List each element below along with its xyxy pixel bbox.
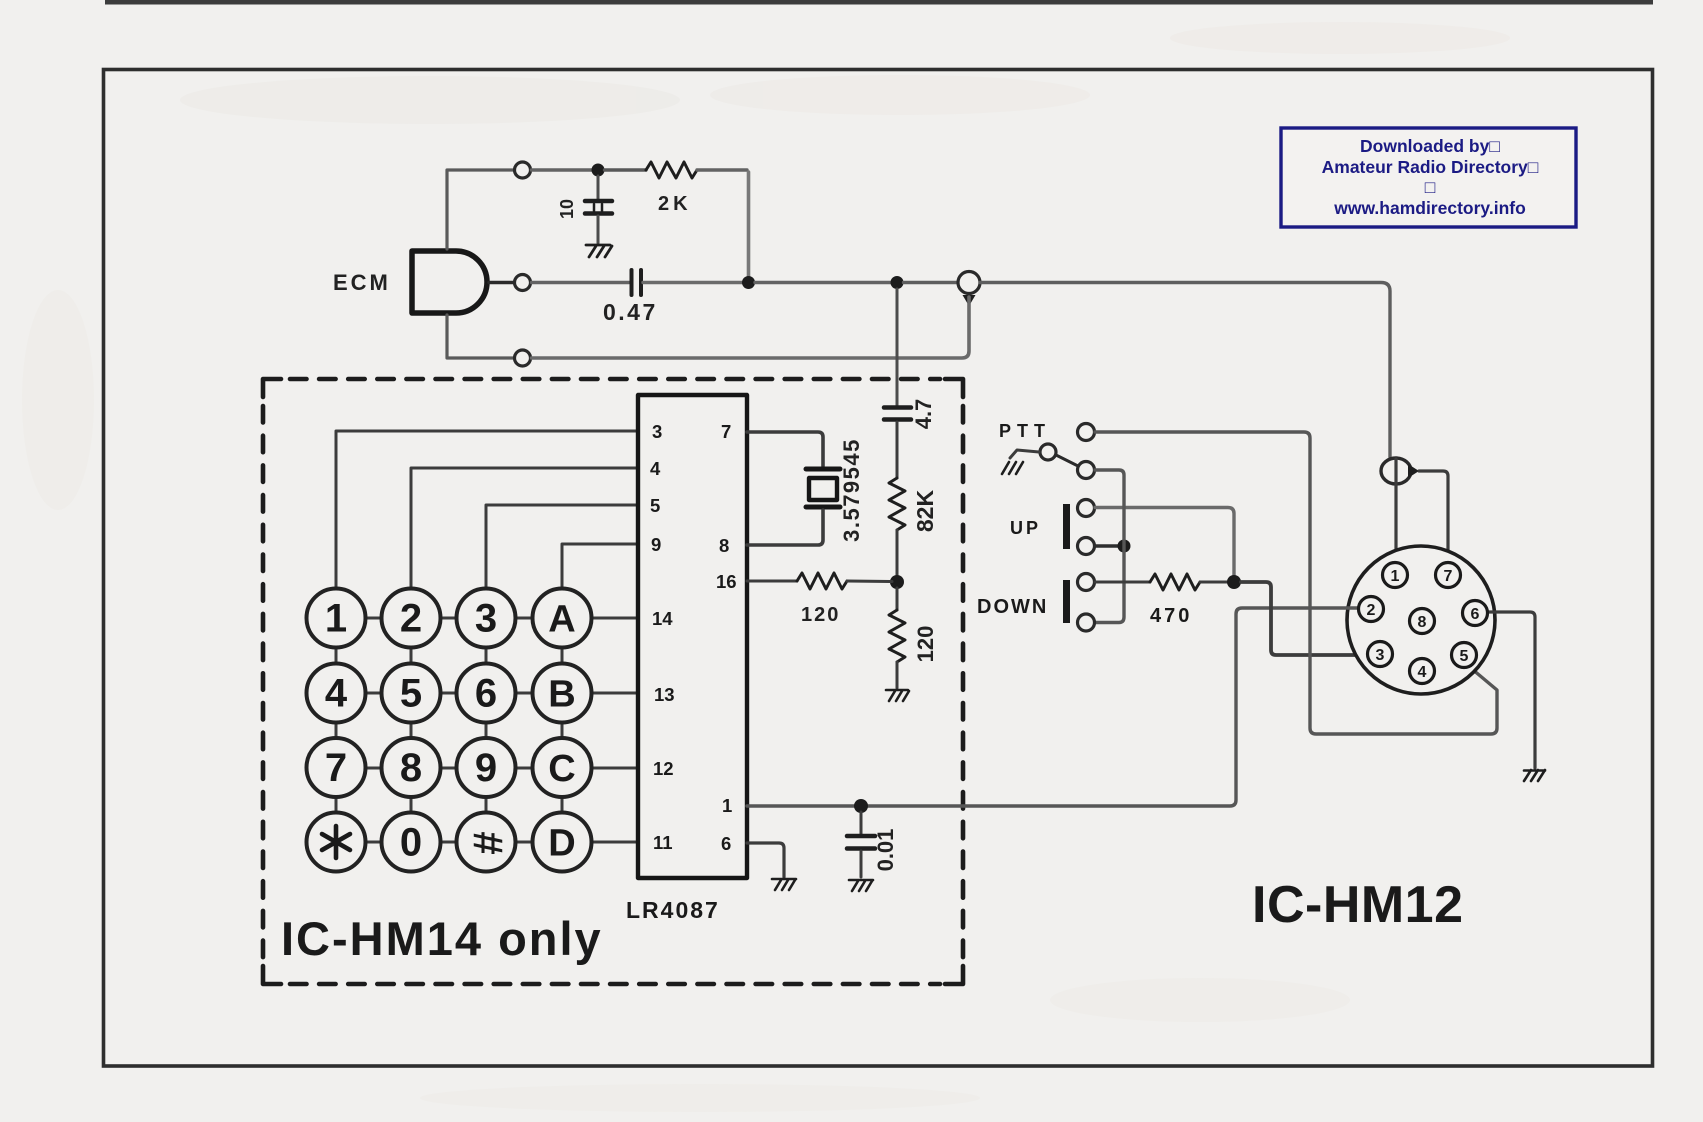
wire DIN pin 6 to ground — [1487, 612, 1535, 768]
ground at PTT — [1002, 462, 1023, 474]
wire node D to resistor 120 — [896, 588, 899, 610]
svg-text:Amateur Radio Directory□: Amateur Radio Directory□ — [1322, 157, 1539, 177]
keypad key B — [533, 664, 592, 723]
wire cable plug to DIN pin 1 — [1394, 459, 1397, 562]
svg-text:www.hamdirectory.info: www.hamdirectory.info — [1333, 198, 1526, 218]
DIN pin 7 — [1436, 563, 1461, 588]
keypad key 5 — [382, 664, 441, 723]
svg-text:6: 6 — [1471, 606, 1480, 623]
DIN pin 5 — [1452, 643, 1477, 668]
wire keypad column 1 to IC pin 3 — [336, 431, 636, 589]
svg-text:10: 10 — [557, 199, 577, 219]
mic line plug — [958, 272, 980, 294]
junction node D — [890, 575, 904, 589]
wire pin 1 net to DIN pin 2 — [747, 608, 1359, 806]
svg-text:6: 6 — [475, 672, 497, 716]
svg-text:□: □ — [1425, 177, 1436, 197]
svg-text:5: 5 — [400, 672, 422, 716]
svg-text:DOWN: DOWN — [977, 596, 1048, 618]
wire UP upper terminal to node F — [1095, 508, 1234, 576]
svg-text:9: 9 — [475, 746, 497, 790]
wire keypad row 2 to IC pin 13 — [336, 692, 636, 695]
wire mic plug to DIN pin 1 — [980, 283, 1390, 458]
wire keypad column 3 verticals — [485, 618, 488, 842]
connector terminal middle — [515, 275, 531, 291]
ground below capacitor 10 — [586, 245, 612, 257]
wire PTT to DIN shell — [1095, 432, 1497, 734]
wire resistor 470 to node F — [1200, 581, 1228, 584]
wire 120 to ground — [896, 662, 899, 688]
watermark box Amateur Radio Directory — [1281, 128, 1576, 227]
IC LR4087 body — [638, 395, 747, 878]
wire PTT lower to DOWN lower bus — [1095, 470, 1124, 623]
svg-text:2: 2 — [400, 597, 422, 641]
svg-text:120: 120 — [913, 626, 938, 663]
svg-text:A: A — [548, 599, 575, 641]
capacitor 0.01 — [847, 812, 875, 877]
svg-text:8: 8 — [400, 746, 422, 790]
dashed enclosure IC-HM14 — [263, 379, 963, 984]
wire node C down to capacitor 4.7 — [896, 289, 899, 405]
svg-text:120: 120 — [801, 604, 840, 626]
DIN pin 3 — [1368, 642, 1393, 667]
svg-text:2: 2 — [1367, 602, 1376, 619]
svg-text:3: 3 — [475, 597, 497, 641]
keypad key 9 — [457, 738, 516, 797]
svg-text:4: 4 — [1418, 664, 1427, 681]
wire DOWN upper terminal to resistor 470 — [1095, 581, 1150, 584]
svg-text:#: # — [465, 831, 512, 854]
resistor 120 vertical — [889, 610, 905, 662]
svg-text:470: 470 — [1150, 605, 1192, 627]
wire resistor 120 to node D — [847, 580, 892, 584]
cable plug arrow — [1408, 464, 1419, 478]
switch PTT lower terminal — [1078, 462, 1095, 479]
svg-text:7: 7 — [325, 746, 347, 790]
DIN pin 8 — [1410, 609, 1435, 634]
wire keypad column 4 verticals — [561, 618, 564, 842]
keypad key 7 — [307, 738, 366, 797]
svg-text:4: 4 — [325, 672, 348, 716]
wire 82K to node D — [896, 530, 899, 577]
svg-text:0.01: 0.01 — [873, 829, 898, 872]
svg-text:16: 16 — [716, 571, 737, 592]
wire keypad column 1 verticals — [335, 618, 338, 842]
svg-text:1: 1 — [325, 597, 347, 641]
svg-text:IC-HM12: IC-HM12 — [1252, 876, 1464, 934]
keypad key 4 — [307, 664, 366, 723]
DIN pin 4 — [1410, 659, 1435, 684]
junction node B — [742, 276, 755, 289]
svg-text:1: 1 — [722, 795, 732, 816]
wire ECM bottom terminal — [447, 315, 513, 358]
svg-text:3: 3 — [1376, 647, 1385, 664]
wire resistor 2K to corner — [697, 168, 747, 171]
keypad key star — [307, 813, 366, 872]
svg-text:Downloaded by□: Downloaded by□ — [1360, 136, 1500, 156]
resistor 2K — [646, 162, 697, 178]
svg-text:5: 5 — [650, 495, 660, 516]
switch UP lower terminal — [1078, 538, 1095, 555]
junction node C — [891, 276, 904, 289]
svg-text:14: 14 — [652, 608, 673, 629]
crystal 3.579545 — [806, 469, 840, 507]
wire node A to resistor 2K — [605, 168, 647, 171]
wire capacitor 10 to ground — [597, 216, 600, 243]
svg-text:11: 11 — [653, 832, 673, 853]
wire keypad column 3 to IC pin 5 — [486, 505, 636, 589]
switch DOWN actuator bar — [1063, 580, 1070, 623]
keypad key 8 — [382, 738, 441, 797]
wire node C to mic plug — [904, 281, 958, 284]
mic plug arrow — [963, 295, 976, 306]
wire pin 7 to crystal — [747, 432, 823, 466]
switch DOWN upper terminal — [1078, 574, 1095, 591]
svg-text:7: 7 — [1444, 568, 1453, 585]
svg-text:B: B — [548, 674, 575, 716]
svg-text:4.7: 4.7 — [911, 399, 936, 430]
svg-text:C: C — [548, 748, 575, 790]
svg-text:8: 8 — [719, 535, 729, 556]
keypad key 3 — [457, 589, 516, 648]
svg-text:82K: 82K — [912, 490, 938, 533]
wire terminal to capacitor 0.47 — [532, 281, 630, 284]
svg-text:1: 1 — [1391, 568, 1400, 585]
svg-text:ECM: ECM — [333, 270, 391, 295]
svg-text:9: 9 — [651, 534, 661, 555]
wire keypad column 2 verticals — [410, 618, 413, 842]
wire node B to node C — [755, 281, 891, 284]
cable plug on mic line — [1381, 458, 1411, 484]
electret microphone ECM body — [412, 251, 487, 313]
svg-text:IC-HM14 only: IC-HM14 only — [281, 912, 603, 965]
svg-text:7: 7 — [721, 421, 731, 442]
svg-text:UP: UP — [1010, 518, 1041, 538]
DIN connector shell — [1347, 546, 1495, 694]
resistor 120 horizontal — [797, 573, 847, 589]
keypad key 1 — [307, 589, 366, 648]
svg-text:3: 3 — [652, 421, 662, 442]
connector terminal bottom — [515, 350, 531, 366]
svg-text:PTT: PTT — [999, 421, 1051, 441]
wire UP lower terminal to bus — [1095, 544, 1119, 548]
capacitor 4.7 — [884, 408, 911, 420]
wire capacitor 4.7 to resistor 82K — [896, 422, 899, 478]
DIN pin 1 — [1383, 563, 1408, 588]
capacitor 10 — [585, 176, 612, 214]
junction node A — [592, 164, 605, 177]
svg-text:13: 13 — [654, 684, 675, 705]
ground below resistor 120 — [886, 690, 909, 701]
wire ECM top terminal — [447, 170, 513, 249]
switch PTT lever pivot — [1040, 444, 1056, 460]
keypad key C — [533, 738, 592, 797]
wire crystal to pin 8 — [747, 510, 823, 545]
wire keypad row 1 to IC pin 14 — [336, 617, 636, 620]
wire pin 6 to ground — [747, 843, 784, 877]
wire DIN pin 2 entry — [1347, 606, 1360, 609]
junction node F — [1227, 575, 1241, 589]
svg-text:D: D — [548, 823, 575, 865]
svg-text:3.579545: 3.579545 — [839, 438, 864, 542]
svg-text:0.47: 0.47 — [603, 299, 658, 325]
svg-text:6: 6 — [721, 833, 731, 854]
wire keypad column 4 to IC pin 9 — [562, 544, 636, 589]
switch UP actuator bar — [1063, 504, 1070, 549]
wire node F to DIN pin 3 — [1241, 582, 1368, 655]
svg-text:2K: 2K — [658, 193, 692, 215]
wire terminal to node A — [532, 168, 593, 172]
keypad key D — [533, 813, 592, 872]
svg-text:LR4087: LR4087 — [626, 897, 720, 923]
wire keypad row 3 to IC pin 12 — [336, 767, 636, 770]
svg-text:8: 8 — [1418, 614, 1427, 631]
junction UP bus — [1118, 540, 1131, 553]
switch PTT common terminal — [1078, 424, 1095, 441]
keypad key 2 — [382, 589, 441, 648]
switch DOWN lower terminal — [1078, 614, 1095, 631]
wire ECM output — [489, 281, 514, 284]
wire 2K branch down to node B — [747, 172, 751, 277]
capacitor 0.47 — [632, 270, 642, 295]
connector terminal top — [515, 162, 531, 178]
svg-text:4: 4 — [650, 458, 661, 479]
wire bottom terminal to mic plug shield — [532, 297, 970, 358]
wire pin 16 to resistor 120 — [747, 580, 797, 583]
switch PTT lever — [1056, 455, 1078, 466]
ground below pin 6 — [772, 879, 796, 890]
switch UP upper terminal — [1078, 500, 1095, 517]
keypad key 6 — [457, 664, 516, 723]
wire capacitor 0.47 to node B — [643, 281, 743, 284]
wire keypad column 2 to IC pin 4 — [411, 468, 636, 589]
keypad key A — [533, 589, 592, 648]
resistor 82K — [889, 478, 905, 530]
keypad key hash — [457, 813, 516, 872]
keypad key 0 — [382, 813, 441, 872]
svg-text:12: 12 — [653, 758, 674, 779]
junction node E — [854, 799, 868, 813]
ground below capacitor 0.01 — [849, 880, 873, 891]
wire PTT pivot to ground — [1010, 450, 1039, 458]
wire cable plug to DIN pin 7 — [1419, 471, 1448, 562]
DIN pin 6 — [1463, 601, 1488, 626]
ground below DIN pin 6 — [1524, 770, 1545, 781]
svg-text:5: 5 — [1460, 648, 1469, 665]
svg-text:0: 0 — [400, 821, 422, 865]
DIN pin 2 — [1359, 597, 1384, 622]
resistor 470 — [1150, 574, 1200, 590]
wire keypad row 4 to IC pin 11 — [336, 841, 636, 844]
